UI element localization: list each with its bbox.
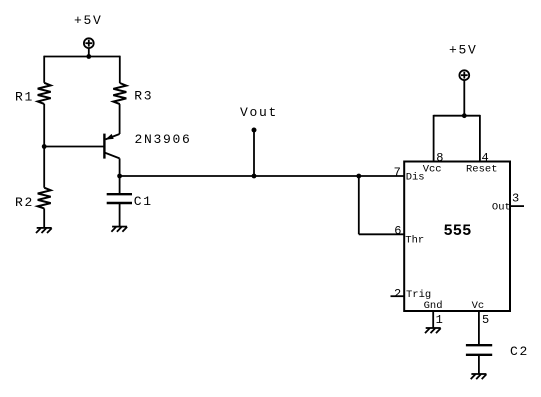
- wire pin 8 stub: [433, 115, 435, 162]
- svg-text:R1: R1: [15, 90, 34, 105]
- capacitor C1: [107, 194, 132, 203]
- svg-text:Dis: Dis: [406, 172, 425, 184]
- svg-text:Thr: Thr: [405, 234, 424, 246]
- svg-text:Gnd: Gnd: [424, 300, 443, 312]
- wire top horizontal rail: [44, 56, 120, 58]
- node Vout terminal dot: [252, 128, 257, 133]
- capacitor C2: [466, 345, 492, 355]
- svg-text:R2: R2: [15, 195, 34, 210]
- wire pin 1 stub: [432, 311, 434, 328]
- ground under C2: [471, 374, 487, 379]
- svg-text:2: 2: [394, 287, 401, 301]
- svg-text:6: 6: [394, 224, 401, 238]
- wire R2 bottom to ground: [43, 208, 45, 228]
- svg-text:C1: C1: [134, 194, 153, 209]
- wire Thr branch horizontal to pin 6: [359, 233, 404, 235]
- op-amp U1 555 body: [404, 162, 510, 312]
- svg-text:2N3906: 2N3906: [135, 132, 192, 147]
- svg-text:+5V: +5V: [449, 43, 478, 58]
- transistor Q1 2N3906 (PNP): [104, 134, 119, 176]
- wire Thr branch vertical: [358, 176, 360, 234]
- wire right rail down to R3: [119, 56, 121, 83]
- svg-text:Trig: Trig: [406, 289, 431, 301]
- power symbol +5V left (circle with plus): [84, 38, 94, 48]
- junction dot collector/output node: [117, 174, 122, 179]
- wire C2 bottom lead: [478, 355, 480, 374]
- junction dot R1/R2/base node: [42, 144, 47, 149]
- wire from left supply down to top rail: [88, 48, 90, 56]
- ground under C1: [111, 227, 127, 232]
- wire R1 bottom to base junction: [43, 104, 45, 147]
- ground under R2: [36, 228, 52, 233]
- junction dot Thr branch on main wire: [356, 174, 361, 179]
- svg-text:C2: C2: [510, 344, 529, 359]
- wire C1 bottom lead: [119, 203, 121, 227]
- resistor R3: [113, 83, 126, 104]
- svg-text:Reset: Reset: [466, 163, 498, 175]
- wire pin 4 stub: [479, 115, 481, 162]
- svg-text:3: 3: [512, 191, 519, 205]
- svg-text:1: 1: [436, 313, 443, 327]
- wire pin 2 stub: [391, 295, 405, 297]
- wire C1 top lead: [119, 176, 121, 194]
- wire Vcc-Reset tie horizontal: [434, 115, 480, 117]
- wire left rail down to R1: [43, 56, 45, 83]
- resistor R1: [38, 83, 51, 104]
- wire pin 5 stub down to C2: [478, 311, 480, 345]
- svg-text:5: 5: [482, 313, 489, 327]
- svg-text:Out: Out: [492, 202, 511, 214]
- svg-text:555: 555: [444, 222, 472, 240]
- wire Vout stub: [253, 130, 255, 176]
- svg-text:R3: R3: [134, 89, 153, 104]
- wire right supply down: [463, 80, 465, 116]
- junction dot Vcc/Reset tie: [462, 113, 467, 118]
- power symbol +5V right (circle with plus): [459, 70, 469, 80]
- junction dot Vout on main wire: [252, 174, 257, 179]
- svg-text:Vc: Vc: [472, 300, 485, 312]
- svg-text:+5V: +5V: [74, 13, 103, 28]
- svg-text:Vcc: Vcc: [423, 163, 442, 175]
- wire pin 3 stub: [510, 205, 524, 207]
- junction dot at top rail: [86, 54, 91, 59]
- svg-text:7: 7: [394, 165, 401, 179]
- wire main output horizontal run to 555 Dis pin: [120, 175, 405, 177]
- wire base node down to R2: [43, 147, 45, 188]
- svg-text:Vout: Vout: [240, 105, 278, 120]
- wire R3 bottom to emitter: [119, 104, 121, 134]
- ground under pin 1: [425, 328, 441, 333]
- resistor R2: [38, 188, 51, 209]
- wire base node to transistor base: [44, 146, 104, 148]
